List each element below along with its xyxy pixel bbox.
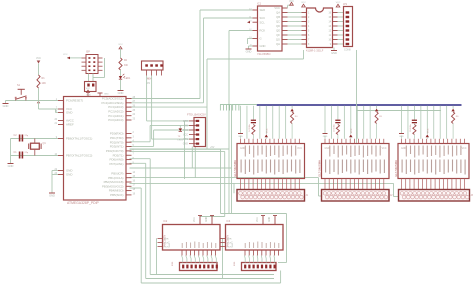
svg-text:GND: GND	[246, 49, 252, 53]
svg-text:CON8: CON8	[344, 49, 351, 52]
svg-text:ELT-546SMA: ELT-546SMA	[317, 160, 321, 177]
svg-text:VCC: VCC	[86, 88, 91, 90]
svg-text:GND: GND	[183, 143, 189, 146]
svg-text:PB5(SCK): PB5(SCK)	[110, 193, 123, 197]
svg-text:GND: GND	[3, 104, 9, 108]
svg-text:VCC: VCC	[462, 148, 467, 150]
svg-text:VCC: VCC	[351, 128, 353, 133]
svg-text:QD: QD	[276, 24, 280, 28]
svg-text:G: G	[260, 37, 262, 41]
svg-text:QH: QH	[276, 42, 280, 46]
svg-text:SHIFT: SHIFT	[232, 241, 234, 248]
svg-text:RCK: RCK	[164, 247, 169, 249]
svg-text:AREF: AREF	[66, 123, 74, 127]
svg-text:VCC: VCC	[194, 217, 196, 222]
svg-text:GND: GND	[104, 94, 109, 96]
svg-text:ELT-546SMA: ELT-546SMA	[394, 160, 398, 177]
svg-text:SER: SER	[260, 8, 266, 12]
svg-text:GND: GND	[66, 111, 72, 115]
svg-text:QC: QC	[276, 20, 280, 24]
svg-text:VCC: VCC	[36, 57, 41, 60]
svg-text:GND: GND	[86, 95, 91, 97]
svg-text:10K: 10K	[42, 82, 47, 85]
svg-text:LED2: LED2	[178, 139, 184, 141]
svg-text:RCK: RCK	[260, 29, 266, 33]
svg-text:C5 100n: C5 100n	[334, 123, 336, 132]
svg-text:GND: GND	[206, 217, 208, 222]
svg-text:VCC: VCC	[274, 6, 280, 10]
svg-text:ELT-546SMA: ELT-546SMA	[233, 160, 237, 177]
svg-text:IC2: IC2	[164, 220, 168, 223]
svg-text:PC0(ADC0): PC0(ADC0)	[108, 118, 123, 122]
svg-text:VCC: VCC	[289, 1, 294, 3]
svg-text:74LC595N: 74LC595N	[257, 52, 270, 56]
svg-text:VCC: VCC	[118, 44, 123, 46]
svg-text:+5V: +5V	[210, 146, 215, 149]
svg-text:SER: SER	[164, 239, 169, 241]
svg-text:PB7(XTAL2/TOSC2): PB7(XTAL2/TOSC2)	[66, 154, 92, 158]
svg-text:SCL: SCL	[260, 20, 266, 24]
svg-text:ISP: ISP	[86, 51, 90, 54]
svg-text:GND: GND	[49, 193, 55, 197]
svg-text:SER: SER	[227, 239, 232, 241]
svg-text:GND: GND	[118, 91, 124, 95]
svg-text:RCK: RCK	[227, 247, 232, 249]
svg-text:RXI: RXI	[184, 124, 188, 127]
svg-text:GND: GND	[325, 148, 330, 150]
svg-text:LED1: LED1	[125, 78, 131, 80]
svg-text:GND: GND	[8, 164, 14, 168]
svg-text:SCK: SCK	[164, 243, 169, 245]
svg-text:ATMEGA328P_PDIP: ATMEGA328P_PDIP	[67, 201, 100, 205]
svg-text:GND: GND	[331, 51, 337, 55]
svg-text:SHIFT: SHIFT	[169, 241, 171, 248]
svg-text:JP1: JP1	[343, 3, 348, 6]
svg-text:GND: GND	[66, 173, 72, 177]
svg-text:GND: GND	[269, 217, 271, 222]
svg-text:DTR: DTR	[183, 120, 188, 123]
svg-text:QB: QB	[276, 15, 280, 19]
svg-text:VCC: VCC	[301, 2, 306, 4]
svg-text:SCK: SCK	[260, 16, 266, 20]
svg-text:VCC: VCC	[428, 128, 430, 133]
svg-text:VCC: VCC	[336, 2, 341, 4]
svg-text:IC1: IC1	[257, 2, 262, 6]
svg-text:CTS: CTS	[183, 138, 188, 141]
svg-text:VCC: VCC	[183, 134, 188, 137]
svg-text:4116R-1-331LF: 4116R-1-331LF	[306, 50, 324, 53]
svg-text:VCC: VCC	[267, 128, 269, 133]
svg-text:GND: GND	[240, 148, 245, 150]
svg-text:GND: GND	[260, 44, 266, 48]
svg-text:C4 100n: C4 100n	[249, 123, 251, 132]
svg-text:VCC: VCC	[257, 217, 259, 222]
svg-text:QG: QG	[276, 38, 280, 42]
svg-text:QA: QA	[276, 11, 280, 15]
svg-text:VCC: VCC	[382, 148, 387, 150]
svg-text:IC3: IC3	[227, 220, 231, 223]
svg-text:QF: QF	[276, 33, 280, 37]
svg-text:SCK: SCK	[227, 243, 232, 245]
svg-text:GND: GND	[401, 148, 406, 150]
svg-text:VCC: VCC	[63, 54, 68, 56]
svg-text:VCC: VCC	[297, 148, 302, 150]
svg-text:FTDI_BASIC5V: FTDI_BASIC5V	[187, 113, 206, 117]
svg-text:PB6(XTAL1/TOSC1): PB6(XTAL1/TOSC1)	[66, 137, 92, 141]
svg-text:C6 100n: C6 100n	[410, 123, 412, 132]
svg-text:PD7(AIN1): PD7(AIN1)	[110, 162, 124, 166]
svg-text:PC6(RESET): PC6(RESET)	[66, 99, 83, 103]
svg-text:TXO: TXO	[183, 129, 188, 132]
svg-text:QE: QE	[276, 29, 280, 33]
